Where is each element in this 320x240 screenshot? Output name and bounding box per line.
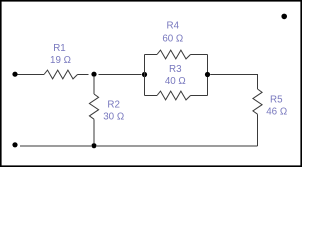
resistor R5 (253, 89, 262, 114)
wire: bottom branch leads (145, 95, 208, 97)
resistor R2 (93, 77, 95, 94)
svg-text:40 Ω: 40 Ω (165, 76, 186, 87)
svg-text:R5: R5 (270, 95, 283, 106)
svg-text:R4: R4 (167, 20, 180, 31)
node: top-left terminal dot (12, 72, 17, 77)
node: isolated top-right terminal dot (281, 14, 287, 20)
resistor R1 (44, 70, 78, 79)
wire: right vertical of parallel box (207, 55, 209, 96)
node C: right node of parallel box (205, 72, 210, 77)
resistor R3 (157, 91, 191, 100)
node A junction dot (R1/R2) (91, 72, 96, 77)
node B: left node of parallel box (142, 72, 147, 77)
wire: R1 to node A (78, 74, 89, 76)
wire: bottom rail right segment (97, 145, 258, 147)
wire: R5 to bottom rail (257, 114, 259, 146)
svg-text:19 Ω: 19 Ω (50, 55, 71, 66)
wire: node C to R5 corner (210, 75, 257, 90)
wire: node A to parallel box (99, 74, 142, 76)
resistor R4 (157, 50, 191, 59)
border frame (1, 1, 301, 166)
svg-text:R3: R3 (169, 64, 182, 75)
svg-text:30 Ω: 30 Ω (103, 112, 124, 123)
svg-text:46 Ω: 46 Ω (266, 107, 287, 118)
wire: left vertical of parallel box (144, 55, 146, 96)
svg-text:60 Ω: 60 Ω (162, 34, 183, 45)
wire: bottom rail left segment (20, 145, 91, 147)
wire: top branch leads (145, 54, 208, 56)
node D: bottom junction dot (R2/rail) (91, 143, 96, 148)
svg-text:R1: R1 (53, 43, 66, 54)
node: bottom-left terminal dot (12, 142, 17, 147)
svg-text:R2: R2 (107, 100, 120, 111)
wire: left terminal to R1 (18, 74, 45, 76)
